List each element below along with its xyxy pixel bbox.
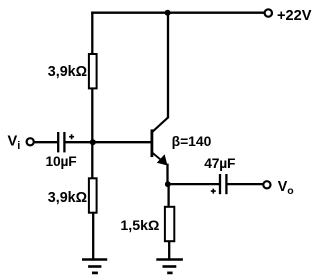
wire emitter node down to R3 xyxy=(167,184,169,207)
ground right xyxy=(156,260,183,273)
wire top rail xyxy=(91,11,264,13)
C1 polarity plus xyxy=(69,134,74,139)
wire Vi to C1 xyxy=(35,141,58,143)
resistor R2 xyxy=(89,178,97,212)
svg-text:1,5kΩ: 1,5kΩ xyxy=(120,218,159,234)
svg-text:3,9kΩ: 3,9kΩ xyxy=(48,190,87,206)
transistor Q1 emitter diagonal xyxy=(153,153,163,161)
wire base node down to R2 xyxy=(91,142,93,178)
node emitter junction xyxy=(165,181,171,187)
wire R3 to ground xyxy=(168,241,170,259)
wire emitter vertical xyxy=(166,164,168,185)
terminal Vi circle xyxy=(27,138,34,145)
wire left vertical upper xyxy=(91,12,93,54)
terminal +22V xyxy=(265,9,272,16)
terminal Vo circle xyxy=(263,181,270,188)
svg-text:10µF: 10µF xyxy=(46,154,77,169)
wire R1 to base node xyxy=(91,88,93,142)
svg-text:β=140: β=140 xyxy=(172,133,212,149)
wire R2 to ground xyxy=(92,213,94,259)
node top junction xyxy=(165,10,171,16)
capacitor C1 plate right xyxy=(63,132,65,152)
transistor Q1 base bar xyxy=(150,129,153,157)
capacitor C2 plate left xyxy=(219,174,221,194)
transistor Q1 emitter arrow xyxy=(158,156,167,165)
svg-text:47µF: 47µF xyxy=(204,156,235,171)
node base junction xyxy=(90,139,96,145)
wire C1 to base bar xyxy=(66,141,152,143)
svg-text:3,9kΩ: 3,9kΩ xyxy=(48,64,87,80)
wire emitter node to C2 xyxy=(168,183,219,185)
ground left xyxy=(82,260,107,273)
svg-text:+22V: +22V xyxy=(277,8,312,24)
capacitor C1 plate left xyxy=(57,132,59,152)
resistor R1 xyxy=(89,54,97,88)
resistor R3 xyxy=(165,207,174,241)
capacitor C2 plate right xyxy=(225,174,227,194)
wire collector vertical xyxy=(167,12,169,119)
wire C2 to Vo xyxy=(228,183,263,185)
transistor Q1 collector diagonal xyxy=(153,117,169,131)
C2 polarity plus xyxy=(211,189,216,194)
